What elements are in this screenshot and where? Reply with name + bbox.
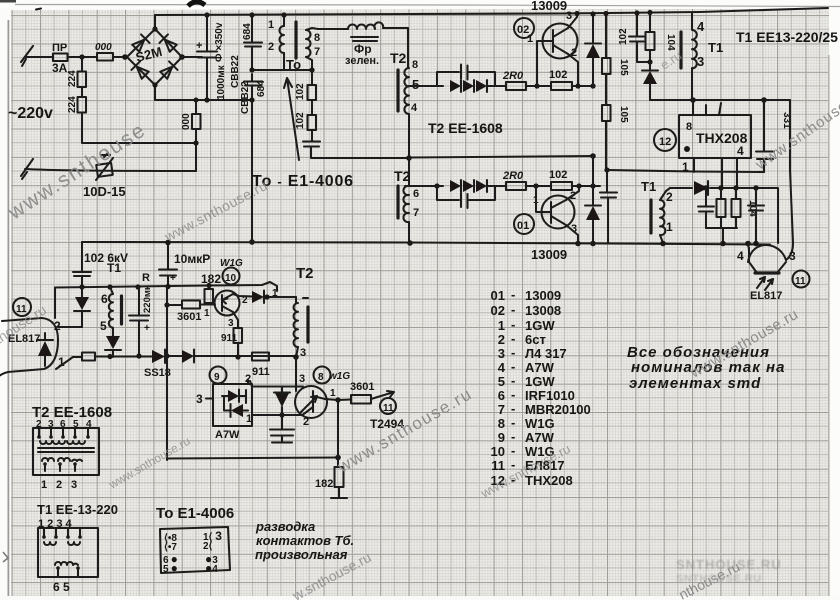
A7W diode1 — [228, 390, 239, 402]
right margin — [829, 0, 840, 600]
svg-text:13008: 13008 — [525, 303, 561, 318]
svg-text:То Е1-4006: То Е1-4006 — [156, 505, 234, 522]
svg-text:4: 4 — [411, 102, 418, 114]
svg-text:7: 7 — [314, 46, 320, 58]
THX bottom pins to row — [722, 158, 737, 187]
transistor Q1 13009 — [542, 196, 575, 229]
svg-text:8: 8 — [686, 121, 692, 133]
To pinout box — [160, 527, 230, 573]
row nodes — [703, 185, 708, 190]
resistor 3601 out — [338, 398, 351, 401]
svg-text:-: - — [511, 387, 515, 402]
T1 top winding — [692, 13, 697, 68]
main cap 1000uF x350v — [206, 15, 208, 100]
svg-text:1: 1 — [666, 220, 673, 234]
svg-text:контактов Тб.: контактов Тб. — [256, 533, 354, 548]
resistor 000 (fusible) — [97, 53, 113, 61]
svg-text:+: + — [170, 273, 176, 284]
fb winding bottom to row — [296, 347, 298, 357]
svg-text:Л4 317: Л4 317 — [525, 346, 567, 361]
T1 box winding B — [55, 562, 78, 565]
cap 102 6kV column — [81, 242, 83, 287]
svg-text:+: + — [144, 323, 150, 334]
svg-text:6: 6 — [413, 188, 419, 200]
svg-text:А7W: А7W — [525, 430, 555, 445]
Q1 collector down — [566, 225, 578, 243]
THX pin8 wire up — [692, 100, 694, 115]
svg-text:3: 3 — [697, 54, 704, 69]
svg-text:3: 3 — [566, 10, 572, 22]
svg-text:СВВ22: СВВ22 — [240, 81, 251, 114]
svg-text:911: 911 — [221, 333, 238, 344]
svg-text:произвольная: произвольная — [255, 547, 348, 562]
emitter wire to diode — [233, 294, 252, 297]
svg-text:220мк: 220мк — [142, 285, 153, 313]
resistor 102 upper — [308, 85, 317, 100]
svg-text:-: - — [511, 302, 515, 317]
row y158 to Q1 base col — [409, 156, 593, 158]
bridge top to bus — [154, 15, 156, 29]
svg-text:Фр: Фр — [354, 42, 372, 56]
svg-text:-: - — [511, 287, 515, 302]
Q1 emitter up — [566, 186, 579, 200]
T2 upper winding — [404, 68, 409, 114]
svg-text:разводка: разводка — [255, 519, 315, 534]
T2 box top pins — [39, 428, 88, 436]
svg-text:6 5: 6 5 — [53, 580, 70, 594]
designator circle 11 tl — [380, 398, 396, 414]
resistor on row — [82, 353, 95, 361]
wires 102 column — [311, 70, 313, 141]
svg-text:10: 10 — [225, 273, 237, 284]
svg-text:4: 4 — [498, 360, 506, 375]
svg-text:3: 3 — [71, 479, 77, 491]
svg-text:SNTHOUSE.RU: SNTHOUSE.RU — [676, 573, 762, 585]
svg-text:02: 02 — [491, 303, 505, 318]
svg-text:1: 1 — [204, 308, 210, 319]
x338 emitter to bus — [337, 400, 339, 457]
svg-text:10D-15: 10D-15 — [83, 184, 126, 199]
diode to node — [252, 291, 264, 303]
svg-text:Т2: Т2 — [390, 50, 407, 66]
svg-text:2⟨: 2⟨ — [203, 541, 213, 552]
filter res1 — [720, 188, 722, 228]
diode x650 — [643, 71, 657, 84]
cap 102 column x637 — [637, 13, 650, 62]
pin2 stub — [248, 380, 252, 387]
wire to emitter node lower — [572, 185, 600, 187]
svg-text:То: То — [286, 57, 301, 72]
cap bottom to row — [311, 147, 409, 158]
SS18 diode — [152, 350, 165, 363]
svg-text:3: 3 — [498, 346, 505, 361]
T1s core bar — [649, 200, 652, 233]
svg-text:1: 1 — [246, 413, 252, 425]
diode col lower x593 — [592, 156, 594, 243]
EL817 input opto body — [0, 318, 58, 377]
resistor 224 upper — [78, 72, 87, 88]
svg-text:4: 4 — [737, 144, 744, 158]
svg-text:1000мк: 1000мк — [216, 64, 227, 100]
svg-text:-: - — [511, 401, 515, 416]
bus y458 — [167, 458, 338, 459]
A7W box — [213, 384, 252, 426]
svg-text:9: 9 — [214, 372, 220, 383]
lower bypass cap — [461, 193, 468, 208]
svg-text:01: 01 — [517, 220, 529, 232]
resistor 2R0 upper — [506, 82, 526, 90]
wire to TL494 arrow — [371, 391, 394, 399]
diode below winding — [106, 336, 120, 349]
lower bypass rect — [437, 186, 495, 200]
svg-text:1: 1 — [527, 33, 533, 45]
THX208 IC box — [679, 115, 751, 158]
T1s bottom to bus — [660, 235, 663, 243]
T1 bottom wire — [691, 68, 693, 100]
rail y287 — [55, 282, 277, 291]
svg-text:000: 000 — [181, 113, 192, 130]
designator circle 02 — [514, 18, 534, 38]
svg-text:102: 102 — [295, 112, 306, 129]
svg-text:Т1: Т1 — [708, 40, 723, 55]
bottom margin — [0, 596, 840, 600]
aux core bar — [120, 296, 123, 324]
svg-text:1: 1 — [330, 388, 336, 399]
wire y100 corner down x790 — [786, 100, 793, 260]
LED inside — [38, 341, 52, 356]
svg-text:Т1: Т1 — [641, 179, 656, 194]
main horizontal rail y242 — [82, 242, 770, 245]
svg-text:+: + — [196, 40, 202, 52]
upper diode2 — [463, 80, 474, 92]
filter res2 — [735, 188, 737, 228]
cap 684 upper plates — [244, 43, 262, 47]
scan tick top — [36, 9, 41, 10]
T1 box winding A — [44, 542, 80, 545]
lower diode1 — [450, 180, 461, 192]
designator circle 12 — [654, 129, 676, 151]
resistor 105 upper — [602, 58, 611, 74]
designator circle 11 left — [13, 298, 31, 316]
resistor 911 vertical — [234, 328, 243, 343]
cap 10mkF column — [167, 242, 169, 287]
To secondary top wire to choke — [306, 28, 348, 30]
transistor Q2 13009 — [543, 24, 578, 59]
fuse PR 3A — [53, 54, 68, 62]
EL817 output opto body — [748, 245, 786, 262]
svg-text:13009: 13009 — [531, 247, 567, 262]
svg-text:911: 911 — [252, 366, 270, 378]
T1 pinout box — [38, 528, 98, 577]
svg-text:182: 182 — [315, 478, 333, 490]
filter cap2 x756 — [755, 188, 757, 243]
svg-text:3: 3 — [196, 392, 203, 406]
wire live input to fuse — [25, 56, 53, 58]
bridge diode BL — [131, 61, 149, 79]
svg-text:1: 1 — [682, 160, 689, 174]
svg-text:Т1 ЕЕ-13-220: Т1 ЕЕ-13-220 — [37, 502, 118, 517]
svg-text:000: 000 — [95, 42, 112, 53]
vertical x167 row to bus458 — [166, 305, 168, 460]
wire to Q1 base node — [526, 185, 551, 187]
svg-text:А7W: А7W — [525, 360, 555, 375]
svg-text:5: 5 — [412, 77, 419, 92]
svg-text:SNTHOUSE.RU: SNTHOUSE.RU — [676, 557, 782, 572]
output row y188 — [670, 188, 778, 243]
top bus — [155, 8, 828, 15]
svg-text:13009: 13009 — [525, 288, 561, 303]
svg-text:-: - — [511, 429, 515, 444]
cap 331 column — [763, 100, 765, 172]
line y170 to THX area — [607, 170, 764, 172]
svg-text:3: 3 — [299, 373, 305, 385]
resistor 104 x650 — [649, 13, 651, 71]
wire choke to T2 drop — [383, 28, 408, 68]
svg-text:6ст: 6ст — [525, 332, 546, 347]
svg-text:-: - — [511, 443, 515, 458]
T2 box core dashes — [38, 448, 94, 452]
emitter to node — [325, 399, 338, 400]
To secondary winding — [306, 30, 311, 57]
arrow text to To — [284, 78, 299, 160]
svg-text:4: 4 — [697, 19, 705, 34]
output diode — [694, 181, 708, 195]
cap x282 — [281, 415, 283, 442]
svg-text:2: 2 — [268, 41, 274, 53]
base wire left — [252, 414, 303, 416]
designator circle 10 — [223, 268, 240, 285]
scan blob top — [188, 2, 205, 6]
T2 box bottom winding — [42, 458, 82, 461]
svg-text:Т2: Т2 — [296, 265, 314, 282]
svg-text:-: - — [511, 415, 515, 430]
svg-text:2R0: 2R0 — [502, 70, 524, 82]
svg-text:102: 102 — [549, 169, 567, 181]
bridge bottom to rail — [154, 85, 156, 100]
designator circle 01 — [514, 214, 534, 234]
svg-text:2: 2 — [498, 332, 505, 347]
svg-text:11: 11 — [491, 458, 505, 473]
svg-text:2: 2 — [56, 479, 62, 491]
svg-text:А7W: А7W — [215, 429, 240, 441]
pin1 wire to row — [56, 357, 73, 369]
choke underline — [351, 37, 378, 41]
T2 lower winding — [403, 186, 409, 222]
wire diodes to 2R0 — [487, 85, 506, 87]
bridge right node — [179, 54, 185, 60]
svg-text:105: 105 — [618, 59, 629, 76]
svg-text:6: 6 — [498, 388, 505, 403]
svg-text:-: - — [511, 345, 515, 360]
diode col upper x593 — [592, 14, 594, 86]
cap 684 lower plates — [244, 82, 262, 86]
top margin — [0, 0, 840, 10]
svg-text:3А: 3А — [52, 61, 68, 75]
svg-text:W1G: W1G — [525, 416, 555, 431]
svg-text:Т2 ЕЕ-1608: Т2 ЕЕ-1608 — [428, 120, 503, 136]
svg-text:3: 3 — [300, 347, 306, 359]
wire to base node — [526, 85, 551, 87]
wire 102 to emitter node — [572, 85, 593, 87]
vertical x296 to driver — [295, 357, 297, 391]
svg-text:105: 105 — [618, 106, 629, 123]
designator circle 8 — [314, 367, 331, 384]
opto arrows — [757, 277, 773, 290]
filter cap1 x706 — [705, 188, 707, 228]
svg-text:10мкР: 10мкР — [174, 252, 210, 266]
svg-text:●4: ●4 — [205, 561, 218, 575]
transistor W1G small — [215, 291, 240, 316]
cap plates x312 — [303, 142, 320, 147]
svg-text:684: 684 — [242, 23, 253, 40]
rail corner down to EL817 — [54, 288, 56, 319]
aux winding — [109, 287, 113, 328]
wire el817 pin4 to bus — [748, 243, 749, 250]
102 column node y70 — [309, 67, 314, 72]
A7W internal joints — [224, 390, 246, 410]
svg-text:8: 8 — [498, 416, 505, 431]
left margin scan line — [8, 20, 10, 600]
resistor 182 vertical — [205, 289, 214, 303]
resistor 2R0 lower — [506, 182, 526, 190]
svg-text:01: 01 — [491, 288, 505, 303]
choke FR arcs — [348, 22, 383, 29]
scan streak top-left corner — [0, 0, 16, 3]
Q2 collector to bus — [568, 14, 577, 29]
varistor 10D-15 — [96, 163, 113, 177]
top link A7W to driver — [252, 385, 303, 387]
svg-text:102: 102 — [618, 28, 629, 45]
svg-text:1: 1 — [498, 318, 505, 333]
cap 220mk column — [138, 287, 140, 356]
T1 top pins — [44, 528, 80, 536]
wire fuse to node — [68, 56, 98, 58]
node y170 — [604, 167, 609, 172]
svg-text:Ф ×350v: Ф ×350v — [214, 22, 225, 62]
Q1 base wire — [536, 186, 551, 212]
svg-text:7: 7 — [498, 402, 505, 417]
To primary bottom wire — [283, 53, 285, 70]
pin2 wire — [58, 326, 82, 328]
wire to 2R0 lower — [487, 185, 506, 187]
lower diode3 — [476, 180, 487, 192]
svg-text:-: - — [511, 317, 515, 332]
horizontal y100 right — [650, 99, 790, 101]
svg-text:6: 6 — [101, 292, 108, 306]
upper diode3 — [476, 80, 487, 92]
svg-text:5: 5 — [100, 319, 107, 333]
T2 box bottom pins — [43, 462, 47, 466]
svg-text:102: 102 — [295, 83, 306, 100]
resistor 000 vertical — [192, 114, 201, 129]
wire 000 column — [195, 100, 197, 171]
bridge left node — [122, 54, 128, 60]
T2 lower core — [396, 186, 399, 218]
cap x609 plates — [600, 193, 617, 198]
svg-text:1GW: 1GW — [525, 374, 555, 389]
bridge right to cap column — [182, 56, 202, 58]
To secondary bottom to 102 column — [306, 57, 312, 70]
svg-text:1: 1 — [268, 19, 274, 31]
resistor 102 lower — [308, 115, 317, 130]
wire to bridge — [113, 56, 127, 58]
scan hairline top edge — [15, 5, 840, 7]
resistor 105 lower — [602, 105, 611, 121]
svg-text:5●: 5● — [163, 561, 178, 575]
T1s secondary winding — [660, 200, 665, 235]
svg-text:-: - — [511, 331, 515, 346]
THX pin1 wire down — [693, 158, 695, 172]
svg-text:IRF1010: IRF1010 — [525, 388, 575, 403]
margin tick bottom-left — [3, 552, 8, 562]
AC neutral wire — [25, 169, 196, 171]
cap 684 column x252 — [251, 15, 253, 242]
svg-text:ПР: ПР — [52, 42, 67, 54]
pin1 tick — [303, 297, 308, 299]
svg-text:13009: 13009 — [531, 0, 567, 13]
svg-text:1: 1 — [41, 479, 47, 491]
svg-text:2R0: 2R0 — [502, 170, 524, 182]
wire 224 down to corner — [82, 113, 196, 144]
T2 lower bottom to bus — [408, 222, 410, 243]
neutral arrow — [21, 159, 33, 179]
To core bar — [294, 22, 297, 58]
svg-text:102: 102 — [549, 69, 567, 81]
svg-text:R: R — [142, 272, 150, 284]
bridge diode TR — [159, 34, 177, 52]
upper diode1 — [450, 80, 461, 92]
svg-text:9: 9 — [498, 430, 505, 445]
wire 224 joint — [81, 57, 83, 97]
upper bypass rect — [437, 72, 495, 86]
resistor 102 upper ch — [551, 82, 572, 90]
designator circle 9 — [210, 367, 227, 384]
To transformer primary winding — [280, 26, 285, 53]
T1 bottom pins — [56, 566, 60, 570]
collector down to 911 — [233, 312, 238, 328]
driver transistor W1G — [295, 386, 327, 418]
svg-text:224: 224 — [67, 70, 78, 87]
dc minus rail y100 — [155, 99, 252, 101]
row y356 — [73, 356, 296, 357]
svg-text:3601: 3601 — [350, 381, 374, 393]
svg-text:w1G: w1G — [329, 371, 350, 382]
svg-text:ЕL817: ЕL817 — [750, 290, 782, 302]
diode x282 — [275, 393, 289, 407]
svg-text:8: 8 — [314, 32, 320, 44]
T2 fb winding top wire — [295, 297, 297, 303]
THX top pin stubs — [706, 103, 721, 115]
svg-text:12: 12 — [659, 136, 671, 148]
svg-text:-: - — [511, 359, 515, 374]
svg-text:4: 4 — [737, 249, 744, 263]
opto pins — [749, 248, 786, 273]
T2 upper bottom to row158 — [408, 114, 410, 158]
node live — [79, 54, 84, 59]
svg-text:7: 7 — [413, 207, 419, 219]
diode x82 down — [75, 297, 89, 310]
resistor 102 lower ch — [551, 182, 572, 190]
T2 fb winding — [294, 303, 298, 347]
svg-text:11: 11 — [795, 276, 806, 287]
svg-text:2: 2 — [666, 190, 673, 204]
resistor 911 horizontal — [252, 353, 269, 361]
node bridge left — [122, 54, 127, 59]
AC live input arrow — [21, 46, 33, 66]
designator circle 11 — [793, 271, 810, 288]
A7W diode2 — [231, 404, 243, 417]
svg-text:зелен.: зелен. — [345, 55, 379, 67]
